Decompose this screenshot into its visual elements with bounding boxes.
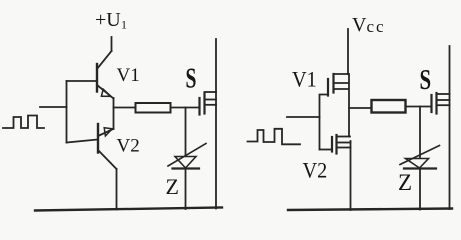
wire V2 source to rail bbox=[350, 141, 352, 210]
wire input lead left bbox=[40, 106, 67, 108]
wire supply vertical right bbox=[347, 29, 349, 74]
mosfet V2 (right) bbox=[332, 135, 351, 154]
wire V1 gate lead bbox=[320, 95, 329, 150]
svg-text:V2: V2 bbox=[303, 158, 328, 183]
wire V1 base lead bbox=[67, 80, 98, 82]
power label +U1 bbox=[95, 9, 127, 32]
resistor R2 (gate resistor, right) bbox=[372, 100, 406, 113]
wire base bus vertical bbox=[66, 81, 68, 143]
wire zener tap vertical right bbox=[419, 107, 421, 159]
zener diode Z (right) bbox=[400, 146, 440, 210]
input square wave 2 bbox=[248, 129, 301, 145]
wire resistor lead right bbox=[349, 107, 371, 109]
resistor R1 (gate resistor, left) bbox=[136, 103, 171, 113]
svg-text:V1: V1 bbox=[117, 65, 140, 86]
svg-text:V: V bbox=[352, 14, 367, 36]
power label Vcc bbox=[352, 14, 386, 36]
wire drain/source vertical left mosfet bbox=[215, 39, 217, 209]
bottom rail right circuit bbox=[288, 209, 452, 211]
zener diode Z (left) bbox=[168, 144, 206, 210]
wire gate lead right mosfet bbox=[406, 106, 432, 108]
wire gate lead left mosfet bbox=[171, 107, 200, 109]
bottom rail left circuit bbox=[35, 208, 222, 211]
svg-text:Z: Z bbox=[166, 174, 179, 199]
wire output node vertical (emitter junction) bbox=[113, 98, 115, 129]
svg-text:cc: cc bbox=[367, 17, 386, 36]
wire V2 gate lead bbox=[320, 149, 333, 151]
svg-text:S: S bbox=[186, 63, 197, 94]
svg-text:1: 1 bbox=[121, 18, 127, 32]
wire zener tap vertical left bbox=[185, 108, 187, 157]
mosfet S (left) bbox=[200, 92, 217, 115]
svg-text:V1: V1 bbox=[292, 67, 317, 92]
wire output node vertical right bbox=[348, 74, 350, 137]
wire drain/source vertical right mosfet bbox=[449, 46, 451, 209]
svg-text:Z: Z bbox=[398, 170, 412, 195]
svg-text:V2: V2 bbox=[117, 136, 140, 157]
transistor V1 bbox=[97, 51, 114, 99]
svg-text:+U: +U bbox=[95, 9, 121, 31]
mosfet S (right) bbox=[432, 93, 450, 114]
mosfet V1 (right) bbox=[328, 74, 349, 96]
wire resistor left lead bbox=[114, 107, 136, 109]
wire V2 collector to rail bbox=[116, 169, 118, 210]
wire input lead right bbox=[287, 116, 320, 118]
wire V2 base lead bbox=[67, 140, 99, 143]
wire V1 drain elbow bbox=[334, 73, 349, 75]
svg-text:S: S bbox=[420, 64, 432, 96]
transistor V2 bbox=[98, 124, 117, 169]
input square wave 1 bbox=[3, 116, 44, 129]
wire supply vertical left bbox=[111, 37, 113, 51]
